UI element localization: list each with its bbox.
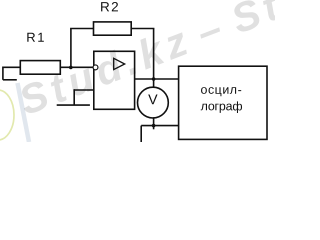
junction node A [69, 66, 73, 70]
wire node A up to R2 [70, 29, 72, 69]
oscilloscope box [179, 66, 267, 139]
svg-text:V: V [148, 92, 158, 108]
wire input bottom stub [3, 79, 17, 81]
wire voltmeter bottom [153, 117, 155, 129]
svg-text:R1: R1 [26, 30, 46, 45]
resistor R2 [94, 22, 132, 35]
svg-text:осцил-: осцил- [200, 83, 242, 97]
wire input top [3, 66, 20, 68]
wire R2 right [131, 28, 154, 30]
wire input vertical [2, 67, 4, 80]
wire node C down to edge [140, 126, 142, 142]
junction node B [152, 77, 156, 81]
resistor R1 [20, 61, 60, 75]
op-amp triangle symbol [114, 58, 125, 69]
svg-text:лограф: лограф [201, 99, 243, 113]
op-amp U1 box [94, 51, 135, 109]
watermark logo slash [18, 83, 30, 142]
wire node C to oscilloscope [141, 125, 178, 127]
wire to R2 left [70, 28, 93, 30]
junction node C [152, 124, 156, 128]
wire R2 down to node B [153, 29, 155, 80]
wire step vertical [73, 89, 75, 105]
watermark logo ellipse [0, 90, 14, 140]
wire ground rail [57, 104, 90, 106]
wire R1 to op-amp input [60, 66, 92, 68]
voltmeter V1 [138, 87, 169, 118]
wire non-inverting input [74, 89, 94, 91]
wire node B down to voltmeter [153, 79, 155, 87]
svg-text:R2: R2 [100, 0, 120, 14]
op-amp inverting input bubble [93, 65, 98, 70]
wire node B to oscilloscope [154, 78, 179, 80]
wire op-amp output to node B [135, 78, 154, 80]
